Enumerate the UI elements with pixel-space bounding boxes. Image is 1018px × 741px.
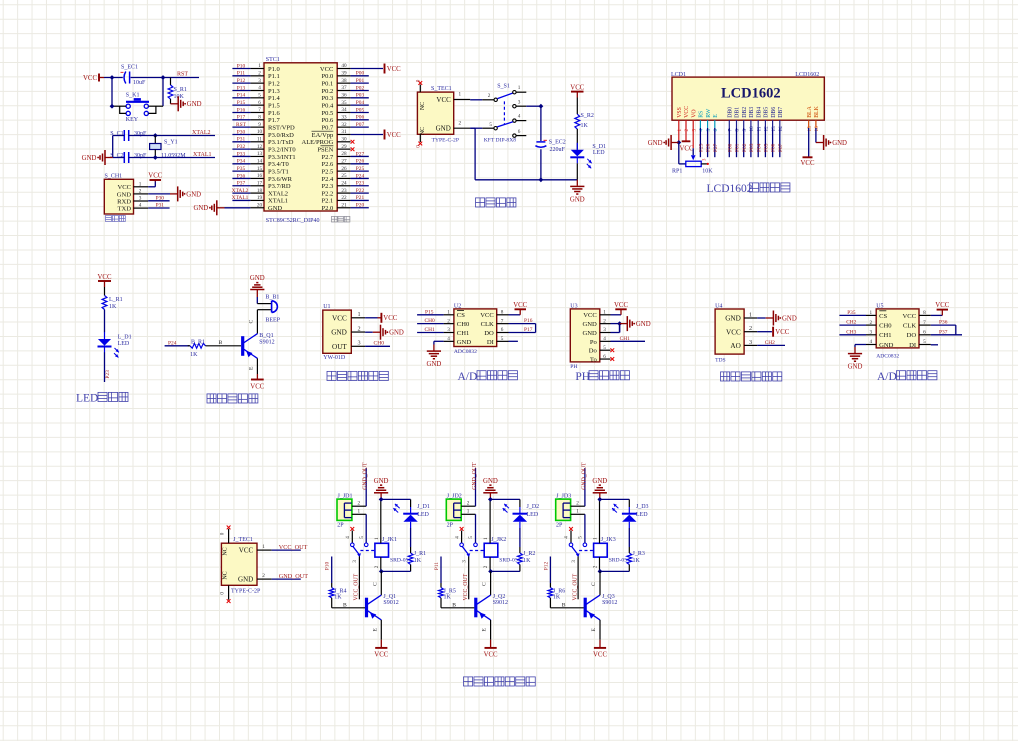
svg-text:LED: LED: [636, 512, 648, 518]
svg-text:P22: P22: [356, 188, 365, 194]
svg-text:1K: 1K: [523, 558, 531, 564]
svg-text:2P: 2P: [556, 522, 563, 528]
svg-text:6: 6: [518, 129, 521, 135]
svg-text:DB6: DB6: [771, 107, 777, 118]
svg-text:J_R4: J_R4: [334, 588, 346, 594]
svg-text:EA/Vpp: EA/Vpp: [312, 132, 334, 139]
svg-text:GND: GND: [268, 205, 282, 212]
svg-text:4: 4: [699, 129, 705, 132]
svg-text:CH1: CH1: [457, 330, 469, 337]
svg-text:P25: P25: [699, 143, 705, 152]
svg-text:CLK: CLK: [903, 323, 916, 330]
svg-text:CH0: CH0: [425, 318, 435, 324]
svg-text:OUT: OUT: [332, 343, 347, 351]
svg-text:11.0592M: 11.0592M: [161, 153, 186, 159]
svg-text:14: 14: [257, 158, 263, 164]
svg-text:3: 3: [139, 196, 142, 202]
svg-text:VCC: VCC: [484, 652, 498, 659]
svg-text:GND: GND: [82, 155, 97, 162]
svg-text:19: 19: [257, 195, 263, 201]
svg-text:3: 3: [603, 327, 606, 333]
svg-text:S_R2: S_R2: [581, 113, 594, 119]
svg-text:18: 18: [257, 188, 263, 194]
svg-text:1: 1: [258, 63, 261, 69]
svg-text:P17: P17: [237, 115, 246, 121]
svg-text:1: 1: [262, 544, 265, 550]
svg-text:6: 6: [713, 129, 719, 132]
svg-text:9: 9: [258, 122, 261, 128]
svg-text:Po: Po: [590, 339, 598, 346]
svg-text:S_S1: S_S1: [497, 83, 510, 89]
svg-text:23: 23: [341, 188, 347, 194]
svg-text:P0.0: P0.0: [322, 73, 334, 80]
svg-text:XTAL2: XTAL2: [268, 190, 288, 197]
svg-text:2: 2: [603, 318, 606, 324]
svg-text:P34: P34: [237, 159, 246, 165]
svg-text:LED: LED: [417, 512, 429, 518]
svg-text:4: 4: [870, 339, 873, 345]
svg-text:P31: P31: [237, 137, 246, 143]
svg-text:B_R1: B_R1: [191, 340, 205, 346]
svg-text:J_Q2: J_Q2: [493, 594, 506, 600]
svg-text:P1.6: P1.6: [268, 110, 280, 117]
svg-text:CLK: CLK: [481, 321, 494, 328]
svg-text:GND: GND: [117, 191, 132, 198]
svg-text:RS: RS: [699, 111, 705, 118]
svg-text:P05: P05: [356, 107, 365, 113]
svg-text:J_R5: J_R5: [444, 588, 456, 594]
svg-text:P01: P01: [356, 78, 365, 84]
svg-text:CH1: CH1: [620, 336, 630, 342]
svg-text:XTAL1: XTAL1: [193, 152, 212, 158]
svg-text:2: 2: [358, 501, 361, 507]
svg-text:P26: P26: [356, 159, 365, 165]
svg-text:TYPE-C-2P: TYPE-C-2P: [231, 588, 261, 594]
svg-text:P2.5: P2.5: [322, 168, 334, 175]
svg-text:AO: AO: [730, 342, 740, 350]
svg-text:VCC: VCC: [684, 106, 690, 118]
svg-text:3: 3: [352, 560, 358, 563]
svg-text:4: 4: [139, 203, 142, 209]
svg-text:RP1: RP1: [672, 168, 682, 174]
svg-text:L_D1: L_D1: [118, 335, 132, 341]
svg-text:J_R2: J_R2: [523, 551, 535, 557]
svg-text:S_CH1: S_CH1: [105, 174, 123, 180]
svg-text:P36: P36: [237, 173, 246, 179]
svg-text:1K: 1K: [633, 558, 641, 564]
svg-text:6: 6: [501, 327, 504, 333]
svg-text:TDS: TDS: [715, 358, 726, 364]
svg-text:20: 20: [257, 202, 263, 208]
svg-text:PH: PH: [570, 364, 577, 370]
svg-text:1: 1: [447, 310, 450, 316]
svg-text:GND: GND: [187, 101, 202, 108]
svg-text:1: 1: [139, 181, 142, 187]
svg-text:2: 2: [593, 565, 599, 568]
svg-text:GND_OUT: GND_OUT: [279, 573, 308, 580]
svg-text:S9012: S9012: [383, 600, 398, 606]
svg-text:P21: P21: [356, 195, 365, 201]
svg-text:P0.1: P0.1: [322, 80, 334, 87]
svg-text:VCC: VCC: [117, 184, 131, 191]
svg-text:E: E: [591, 628, 597, 632]
svg-text:12: 12: [257, 144, 263, 150]
svg-text:4: 4: [518, 114, 521, 120]
svg-text:XTAL1: XTAL1: [232, 195, 249, 201]
svg-text:VCC: VCC: [383, 315, 397, 322]
svg-text:ADC0832: ADC0832: [454, 349, 477, 355]
svg-text:J_JK1: J_JK1: [382, 537, 397, 543]
svg-text:8: 8: [923, 310, 926, 316]
svg-text:2: 2: [258, 71, 261, 77]
svg-text:DB2: DB2: [742, 107, 748, 118]
svg-text:P24: P24: [356, 173, 365, 179]
svg-text:5: 5: [489, 122, 492, 128]
svg-text:40: 40: [341, 63, 347, 69]
svg-text:1K: 1K: [334, 595, 342, 601]
svg-text:S_Y1: S_Y1: [164, 140, 178, 146]
svg-text:GND: GND: [389, 330, 404, 337]
svg-text:P2.0: P2.0: [322, 205, 334, 212]
svg-text:BLA: BLA: [807, 105, 813, 117]
svg-text:SRD-05: SRD-05: [609, 557, 628, 563]
svg-text:E: E: [713, 114, 719, 118]
svg-text:10: 10: [749, 126, 755, 132]
svg-text:4: 4: [564, 536, 570, 539]
svg-text:CH2: CH2: [846, 320, 856, 326]
svg-text:VCC: VCC: [903, 313, 917, 320]
svg-text:P12: P12: [237, 78, 246, 84]
svg-text:1: 1: [467, 509, 470, 515]
svg-text:To: To: [590, 356, 598, 363]
svg-text:P3.6/WR: P3.6/WR: [268, 176, 293, 183]
svg-text:GND: GND: [186, 191, 201, 198]
svg-text:GND: GND: [427, 361, 442, 368]
svg-text:P0.5: P0.5: [322, 110, 334, 117]
svg-text:S_K1: S_K1: [126, 93, 140, 99]
svg-text:VSS: VSS: [677, 107, 683, 118]
svg-text:J_Q3: J_Q3: [602, 594, 615, 600]
svg-text:P35: P35: [847, 310, 856, 316]
svg-text:J_JK3: J_JK3: [601, 537, 616, 543]
svg-text:17: 17: [257, 180, 263, 186]
svg-text:P0.2: P0.2: [322, 88, 334, 95]
svg-text:P16: P16: [524, 318, 533, 324]
svg-text:VCC: VCC: [513, 302, 527, 309]
svg-text:LCD1602: LCD1602: [721, 86, 781, 102]
svg-text:220uF: 220uF: [550, 147, 566, 153]
svg-text:P1.4: P1.4: [268, 95, 280, 102]
svg-text:CH0: CH0: [374, 341, 385, 347]
svg-text:PH: PH: [575, 371, 590, 383]
svg-text:P1.0: P1.0: [268, 66, 280, 73]
svg-text:5: 5: [501, 336, 504, 342]
svg-text:P06: P06: [356, 115, 365, 121]
svg-text:CS: CS: [879, 313, 887, 320]
svg-text:VCC: VCC: [374, 652, 388, 659]
svg-text:BLK: BLK: [814, 105, 820, 117]
svg-text:P17: P17: [524, 327, 533, 333]
svg-text:2: 2: [488, 93, 491, 99]
svg-text:GND: GND: [782, 315, 797, 322]
svg-text:GND: GND: [648, 140, 663, 147]
svg-text:S_EC2: S_EC2: [549, 140, 566, 146]
svg-text:1K: 1K: [444, 595, 452, 601]
svg-text:34: 34: [341, 107, 347, 113]
svg-text:P10: P10: [237, 63, 246, 69]
svg-text:RW: RW: [706, 108, 712, 118]
svg-text:Do: Do: [589, 348, 598, 355]
svg-text:VCC_OUT: VCC_OUT: [279, 544, 308, 551]
svg-text:4: 4: [345, 536, 351, 539]
svg-text:1: 1: [374, 537, 380, 540]
svg-text:38: 38: [341, 78, 347, 84]
svg-text:26: 26: [341, 166, 347, 172]
svg-text:1K: 1K: [414, 558, 422, 564]
svg-text:P32: P32: [237, 144, 246, 150]
svg-text:5: 5: [258, 93, 261, 99]
svg-text:2: 2: [870, 320, 873, 326]
svg-text:C: C: [249, 320, 255, 324]
svg-text:P37: P37: [237, 181, 246, 187]
svg-text:KFT DIP-8X8: KFT DIP-8X8: [484, 137, 517, 143]
svg-text:P30: P30: [237, 129, 246, 135]
svg-text:P31: P31: [156, 202, 165, 208]
svg-text:DO: DO: [907, 332, 917, 339]
svg-text:P2.6: P2.6: [322, 161, 334, 168]
svg-text:14: 14: [778, 126, 784, 132]
svg-text:S_R1: S_R1: [174, 87, 187, 93]
svg-text:6: 6: [603, 354, 606, 360]
svg-text:VCC: VCC: [775, 329, 789, 336]
svg-text:VCC: VCC: [593, 652, 607, 659]
svg-text:P36: P36: [939, 320, 948, 326]
svg-text:4: 4: [454, 536, 460, 539]
svg-text:31: 31: [341, 129, 347, 135]
svg-text:CH3: CH3: [846, 329, 856, 335]
svg-text:1: 1: [677, 129, 683, 132]
svg-text:J_D1: J_D1: [417, 504, 430, 510]
svg-text:LED: LED: [118, 341, 130, 347]
svg-text:P27: P27: [356, 151, 365, 157]
svg-text:GND_OUT: GND_OUT: [472, 462, 478, 490]
svg-text:5: 5: [603, 345, 606, 351]
svg-text:RST/VPD: RST/VPD: [268, 124, 295, 131]
svg-text:GND: GND: [583, 330, 598, 337]
svg-text:2P: 2P: [337, 522, 344, 528]
svg-text:32: 32: [341, 122, 347, 128]
svg-text:P11: P11: [434, 562, 440, 570]
svg-text:S_EC1: S_EC1: [121, 65, 138, 71]
svg-text:S9012: S9012: [602, 600, 617, 606]
svg-text:GND: GND: [592, 478, 607, 485]
svg-text:1: 1: [870, 310, 873, 316]
svg-text:P06: P06: [771, 143, 777, 152]
svg-text:2: 2: [459, 120, 462, 126]
svg-text:B: B: [219, 340, 223, 346]
svg-text:P3.3/INT1: P3.3/INT1: [268, 154, 296, 161]
svg-text:VCC_OUT: VCC_OUT: [572, 573, 578, 600]
svg-text:22: 22: [341, 195, 347, 201]
svg-text:XTAL2: XTAL2: [232, 188, 249, 194]
svg-text:1: 1: [357, 311, 360, 318]
svg-text:29: 29: [341, 144, 347, 150]
svg-text:5: 5: [359, 536, 365, 539]
svg-text:39: 39: [341, 71, 347, 77]
svg-text:VCC: VCC: [239, 547, 254, 555]
svg-text:24: 24: [341, 180, 347, 186]
svg-text:1K: 1K: [553, 595, 561, 601]
svg-text:GND: GND: [238, 576, 253, 584]
svg-text:P14: P14: [237, 93, 246, 99]
svg-text:P02: P02: [742, 143, 748, 152]
svg-text:P24: P24: [168, 341, 177, 347]
svg-text:P37: P37: [939, 329, 948, 335]
svg-text:P11: P11: [237, 71, 245, 77]
svg-text:1: 1: [749, 311, 752, 318]
svg-text:2: 2: [576, 501, 579, 507]
svg-text:CH0: CH0: [879, 323, 892, 330]
svg-text:VCC: VCC: [320, 66, 333, 73]
svg-text:LED: LED: [527, 512, 539, 518]
svg-text:7: 7: [258, 107, 261, 113]
svg-text:1K: 1K: [190, 352, 198, 358]
svg-text:2: 2: [447, 318, 450, 324]
svg-text:10K: 10K: [702, 168, 713, 174]
svg-text:30: 30: [341, 137, 347, 143]
svg-text:3: 3: [691, 129, 697, 132]
svg-text:XTAL2: XTAL2: [192, 130, 211, 136]
svg-text:2P: 2P: [447, 522, 454, 528]
svg-text:P15: P15: [237, 100, 246, 106]
svg-text:S9012: S9012: [493, 600, 508, 606]
svg-text:ADC0832: ADC0832: [876, 353, 899, 359]
svg-text:37: 37: [341, 85, 347, 91]
svg-text:3: 3: [357, 340, 360, 347]
svg-text:A/D: A/D: [458, 371, 478, 383]
svg-text:RST: RST: [177, 72, 188, 78]
svg-text:CH1: CH1: [425, 327, 435, 333]
svg-text:B_Q1: B_Q1: [259, 333, 273, 339]
svg-text:BEEP: BEEP: [265, 317, 280, 323]
svg-text:P3.5/T1: P3.5/T1: [268, 168, 289, 175]
svg-text:0: 0: [416, 145, 422, 148]
svg-text:L_R1: L_R1: [109, 297, 123, 303]
svg-text:VCC: VCC: [614, 302, 628, 309]
svg-text:VCC: VCC: [935, 302, 949, 309]
svg-text:27: 27: [341, 158, 347, 164]
svg-text:0: 0: [219, 592, 225, 595]
svg-text:DO: DO: [484, 330, 494, 337]
svg-text:P03: P03: [356, 93, 365, 99]
svg-text:15: 15: [257, 166, 263, 172]
svg-text:10: 10: [257, 129, 263, 135]
svg-text:7: 7: [923, 320, 926, 326]
svg-text:J_R3: J_R3: [633, 551, 645, 557]
svg-text:B_B1: B_B1: [265, 295, 279, 301]
svg-text:P0.7: P0.7: [322, 124, 334, 131]
svg-text:DB1: DB1: [735, 107, 741, 118]
svg-text:10K: 10K: [174, 94, 185, 100]
svg-text:1: 1: [518, 85, 521, 91]
svg-text:NC: NC: [420, 102, 426, 110]
svg-text:VCC: VCC: [250, 384, 264, 391]
svg-text:P10: P10: [325, 562, 331, 571]
svg-text:3: 3: [870, 330, 873, 336]
svg-text:GND: GND: [331, 329, 347, 337]
svg-text:1: 1: [358, 509, 361, 515]
svg-text:2: 2: [262, 573, 265, 579]
svg-text:P2.3: P2.3: [322, 183, 334, 190]
svg-text:16: 16: [257, 173, 263, 179]
svg-text:0: 0: [219, 532, 225, 535]
svg-text:1: 1: [593, 537, 599, 540]
svg-text:DI: DI: [487, 339, 494, 346]
svg-text:9: 9: [742, 129, 748, 132]
svg-text:GND: GND: [250, 275, 265, 282]
svg-text:P30: P30: [156, 195, 165, 201]
svg-text:GND: GND: [193, 205, 208, 212]
svg-text:P2.1: P2.1: [322, 198, 334, 205]
svg-text:YW-01D: YW-01D: [323, 355, 346, 361]
svg-text:P2.2: P2.2: [322, 190, 334, 197]
svg-text:NC: NC: [222, 547, 228, 555]
svg-text:ALE/PROG: ALE/PROG: [302, 139, 334, 146]
svg-text:GND: GND: [848, 364, 863, 371]
svg-text:8: 8: [501, 310, 504, 316]
svg-text:KEY: KEY: [126, 117, 139, 123]
svg-text:13: 13: [771, 126, 777, 132]
svg-text:P04: P04: [756, 143, 762, 152]
svg-text:P27: P27: [713, 143, 719, 152]
svg-text:2: 2: [139, 188, 142, 194]
svg-text:P16: P16: [237, 107, 246, 113]
svg-text:2: 2: [374, 565, 380, 568]
svg-text:P2.7: P2.7: [322, 154, 334, 161]
svg-text:21: 21: [341, 202, 347, 208]
svg-text:P2.4: P2.4: [322, 176, 334, 183]
svg-text:2: 2: [684, 129, 690, 132]
svg-text:P3.7/RD: P3.7/RD: [268, 183, 291, 190]
svg-text:P20: P20: [356, 203, 365, 209]
svg-text:P3.2/INT0: P3.2/INT0: [268, 146, 296, 153]
svg-text:VCC: VCC: [436, 96, 451, 104]
svg-text:P3.1/TxD: P3.1/TxD: [268, 139, 294, 146]
svg-text:1: 1: [459, 92, 462, 98]
svg-text:P15: P15: [425, 309, 434, 315]
svg-text:3: 3: [258, 78, 261, 84]
svg-text:5: 5: [923, 339, 926, 345]
svg-text:8: 8: [735, 129, 741, 132]
svg-text:6: 6: [258, 100, 261, 106]
svg-text:GND: GND: [483, 478, 498, 485]
svg-text:VCC: VCC: [583, 312, 597, 319]
svg-text:P07: P07: [778, 143, 784, 152]
svg-text:C: C: [372, 582, 378, 586]
svg-text:15: 15: [807, 126, 813, 132]
svg-text:10uF: 10uF: [133, 80, 146, 86]
svg-text:S_TEC1: S_TEC1: [431, 86, 452, 92]
svg-text:C: C: [591, 582, 597, 586]
svg-text:E: E: [482, 628, 488, 632]
svg-text:P3.4/T0: P3.4/T0: [268, 161, 289, 168]
svg-text:P05: P05: [764, 143, 770, 152]
svg-text:1: 1: [576, 509, 579, 515]
svg-text:SRD-05: SRD-05: [499, 557, 518, 563]
svg-text:P01: P01: [735, 143, 741, 152]
svg-text:P1.5: P1.5: [268, 102, 280, 109]
svg-text:P12: P12: [543, 562, 549, 571]
